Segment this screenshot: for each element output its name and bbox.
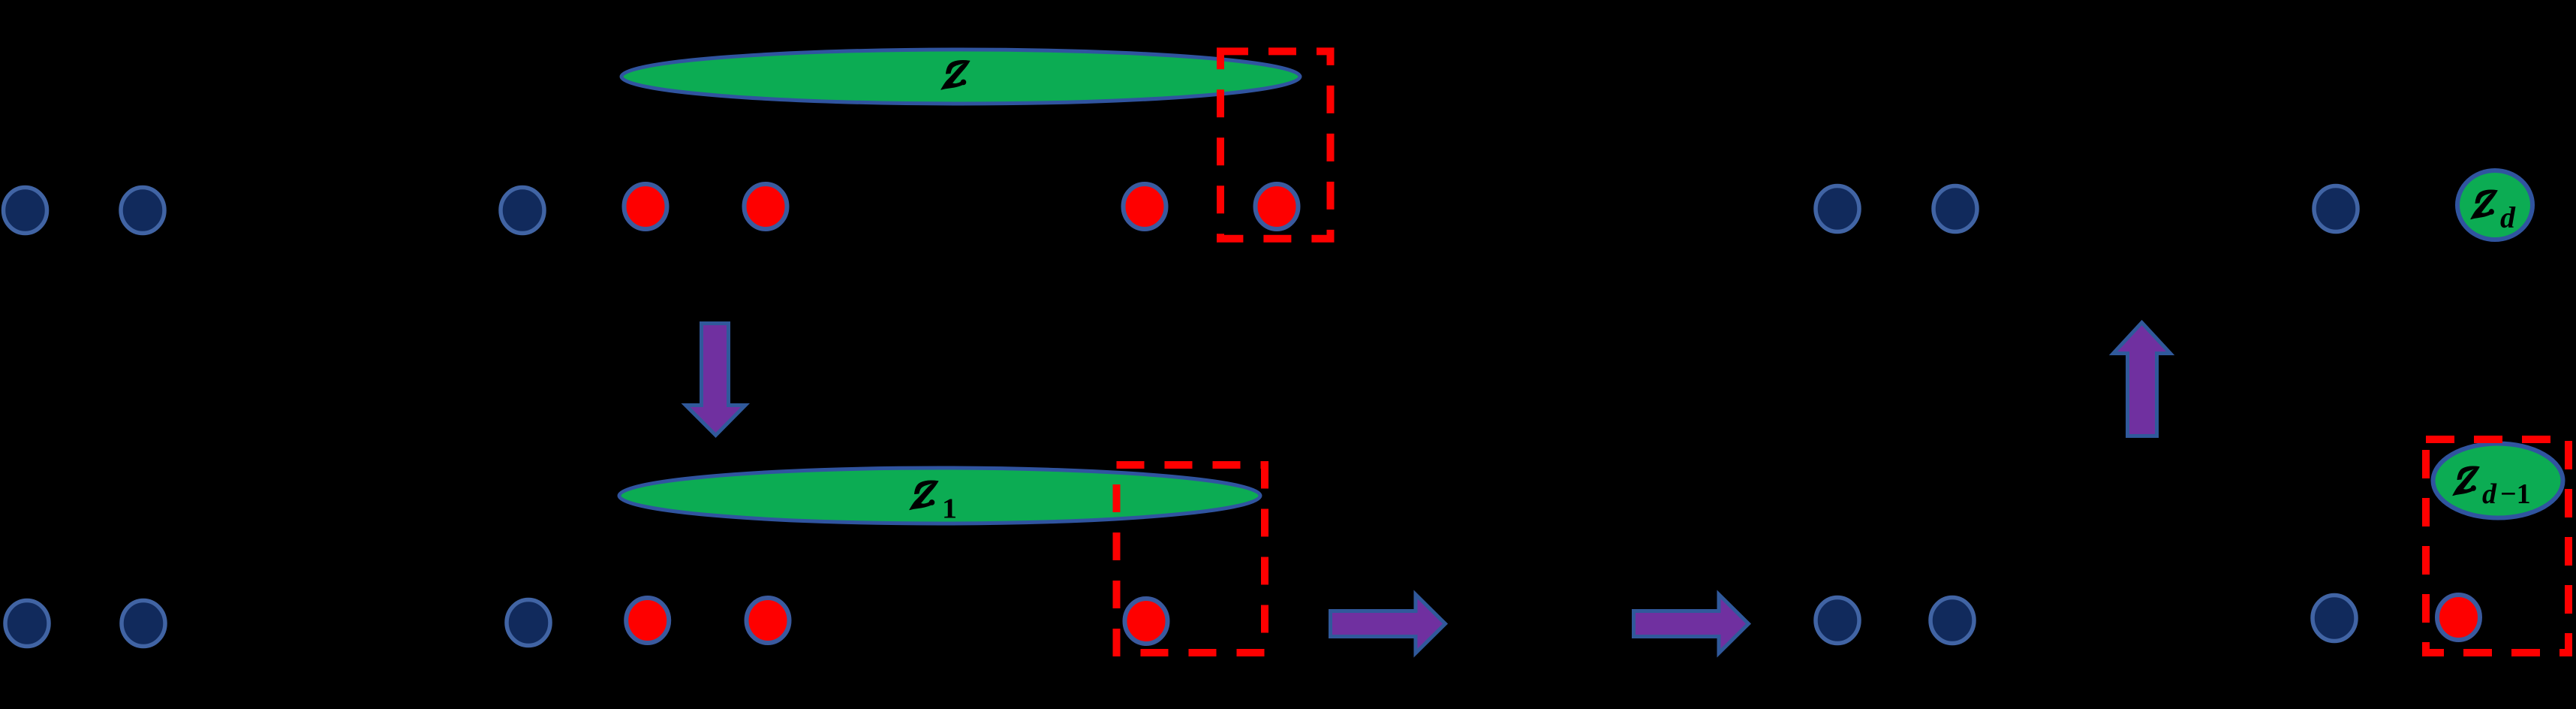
down arrow: [686, 324, 746, 436]
node r4 top red circle (in dashed box): [1256, 184, 1299, 229]
node r3 top red circle: [1124, 184, 1166, 229]
up arrow: [2114, 323, 2171, 436]
node r2 top red circle: [745, 184, 787, 229]
node br4 bottom-right red circle (in dashed box): [2437, 595, 2480, 640]
label Z: [941, 61, 970, 90]
svg-text:d: d: [2500, 201, 2516, 234]
label Z_(d-1): [2453, 466, 2479, 496]
svg-text:−1: −1: [2500, 478, 2531, 510]
node b2 bottom blue circle: [122, 601, 165, 647]
node b1 bottom-left blue circle: [5, 601, 49, 647]
svg-text:d: d: [2482, 478, 2497, 510]
node b4 bottom-right blue circle: [1816, 598, 1859, 644]
node br2 bottom red circle: [747, 598, 790, 643]
node b6 bottom-right blue circle: [2313, 596, 2356, 641]
node v4 top-right blue circle: [1816, 186, 1859, 232]
node br1 bottom red circle: [626, 598, 669, 643]
node v6 top-right blue circle: [2314, 186, 2358, 232]
node v5 top-right blue circle: [1934, 186, 1977, 232]
node b3 bottom blue circle: [507, 600, 550, 646]
right arrow 2: [1634, 595, 1749, 653]
label Z_1: [910, 481, 938, 510]
node v2 top blue circle: [121, 188, 164, 234]
bottom-middle red dashed box: [1117, 465, 1265, 653]
green ellipse Z_1: [619, 468, 1260, 523]
bottom-right red dashed box: [2426, 439, 2568, 653]
label Z_d: [2471, 190, 2497, 219]
top red dashed box: [1220, 51, 1331, 238]
green ellipse Z_(d-1): [2433, 444, 2563, 518]
node v3 top blue circle: [501, 188, 544, 234]
green circle Z_d: [2457, 170, 2532, 240]
node r1 top red circle: [624, 184, 667, 229]
node v1 top-left blue circle: [4, 188, 47, 234]
green ellipse Z: [621, 50, 1300, 104]
node br3 bottom red circle (in dashed box): [1125, 599, 1168, 644]
svg-text:1: 1: [942, 493, 957, 525]
right arrow 1: [1331, 595, 1446, 653]
node b5 bottom-right blue circle: [1930, 598, 1974, 644]
